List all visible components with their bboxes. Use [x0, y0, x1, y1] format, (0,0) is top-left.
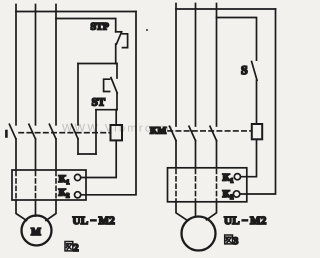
label fig2 caption: [65, 242, 73, 251]
wire L1 rail (fig3): [175, 4, 177, 127]
switch S: [252, 62, 257, 81]
wire box to motor left (fig2): [16, 200, 27, 221]
wire L1 rail (fig2): [15, 5, 17, 125]
svg-text:3: 3: [233, 236, 238, 247]
svg-text:2: 2: [73, 243, 78, 254]
terminal K1 (fig2): [75, 174, 81, 180]
wire seal-in branch right leg: [95, 110, 97, 154]
svg-text:M: M: [31, 227, 41, 238]
contactor KM pole2: [189, 126, 196, 140]
svg-text:K1: K1: [59, 174, 70, 186]
svg-text:KM: KM: [150, 127, 166, 137]
wire seal-in branch left leg: [77, 64, 79, 125]
wire pole3 to box (fig3): [216, 141, 218, 168]
wire L2 rail (fig3): [195, 4, 197, 127]
wire STP to node A: [115, 44, 117, 64]
pushbutton STP (NC stop): [116, 32, 128, 48]
contactor KM pole3: [210, 126, 217, 140]
svg-text:K1: K1: [223, 172, 234, 184]
svg-text:K2: K2: [223, 189, 234, 201]
svg-text:UL−M2: UL−M2: [224, 215, 267, 227]
motor (fig3): [182, 217, 216, 251]
wire node A horizontal: [78, 63, 117, 65]
motor M (fig2): [22, 216, 52, 246]
wire pole1 to box (fig3): [175, 141, 177, 168]
wire pole1 to box: [15, 139, 17, 170]
wire S to coil: [256, 80, 258, 124]
pushbutton ST (NO start): [104, 64, 118, 110]
wire pole2 to box (fig3): [195, 141, 197, 168]
svg-text:S: S: [241, 63, 248, 77]
contactor main contact K pole3: [49, 124, 56, 139]
wire coil to K1 terminal: [81, 140, 116, 177]
dashed rail inside box 1 (fig2): [15, 172, 17, 199]
protector box UL-M2 (fig3): [168, 168, 247, 202]
dashed rail inside box 3 (fig2): [55, 172, 57, 199]
dashed rail inside box 2 (fig3): [195, 169, 197, 200]
wire box to motor mid (fig2): [35, 200, 37, 216]
contactor KM pole1: [170, 126, 177, 140]
wire L2 rail (fig2): [35, 5, 37, 125]
wire control return (fig2): [81, 12, 136, 195]
wire top bus (fig3): [176, 8, 276, 10]
coil KM (fig3): [252, 124, 262, 139]
wire node B to coil: [115, 110, 117, 125]
wire control return (fig3): [240, 9, 276, 194]
svg-text:K2: K2: [59, 188, 70, 200]
wire box to motor right (fig3): [207, 202, 217, 220]
svg-text:STP: STP: [91, 22, 109, 33]
wire coil to K1 terminal (fig3): [241, 139, 257, 176]
terminal K2 (fig3): [233, 191, 239, 197]
wire box to motor left (fig3): [176, 202, 187, 220]
wire node B horizontal: [96, 109, 117, 111]
svg-text:ST: ST: [92, 97, 106, 109]
contactor main contact K pole2: [29, 124, 36, 139]
label fig3 caption: [225, 235, 233, 244]
contactor aux contact K (seal-in): [72, 124, 79, 139]
wire box to motor right (fig2): [46, 200, 56, 221]
wire pole2 to box: [35, 139, 37, 170]
wire seal-in branch bottom: [78, 153, 96, 155]
svg-text:UL−M2: UL−M2: [73, 215, 116, 227]
wire L3 rail (fig2): [55, 5, 57, 125]
stray dot: [146, 29, 148, 31]
left margin mark: [5, 131, 8, 137]
coil K (fig2): [111, 125, 123, 140]
dashed rail inside box 3 (fig3): [216, 169, 218, 200]
wire control tap from L3 (fig2): [56, 19, 116, 32]
terminal K2 (fig2): [75, 192, 81, 198]
terminal K1 (fig3): [234, 174, 240, 180]
wire top bus (fig2): [16, 11, 136, 13]
mechanical linkage dashed (fig3): [168, 130, 252, 132]
dashed rail inside box 2 (fig2): [35, 172, 37, 199]
wire L3 rail (fig3): [216, 4, 218, 127]
wire control tap from L3 (fig3): [217, 18, 257, 61]
wire pole3 to box: [55, 139, 57, 170]
dashed rail inside box 1 (fig3): [175, 169, 177, 200]
wire aux contact lower lead: [77, 139, 79, 154]
mechanical linkage dashed (fig2): [19, 132, 111, 134]
contactor main contact K pole1: [9, 124, 16, 139]
protector box UL-M2 (fig2): [12, 170, 86, 200]
wire box to motor mid (fig3): [195, 202, 197, 217]
